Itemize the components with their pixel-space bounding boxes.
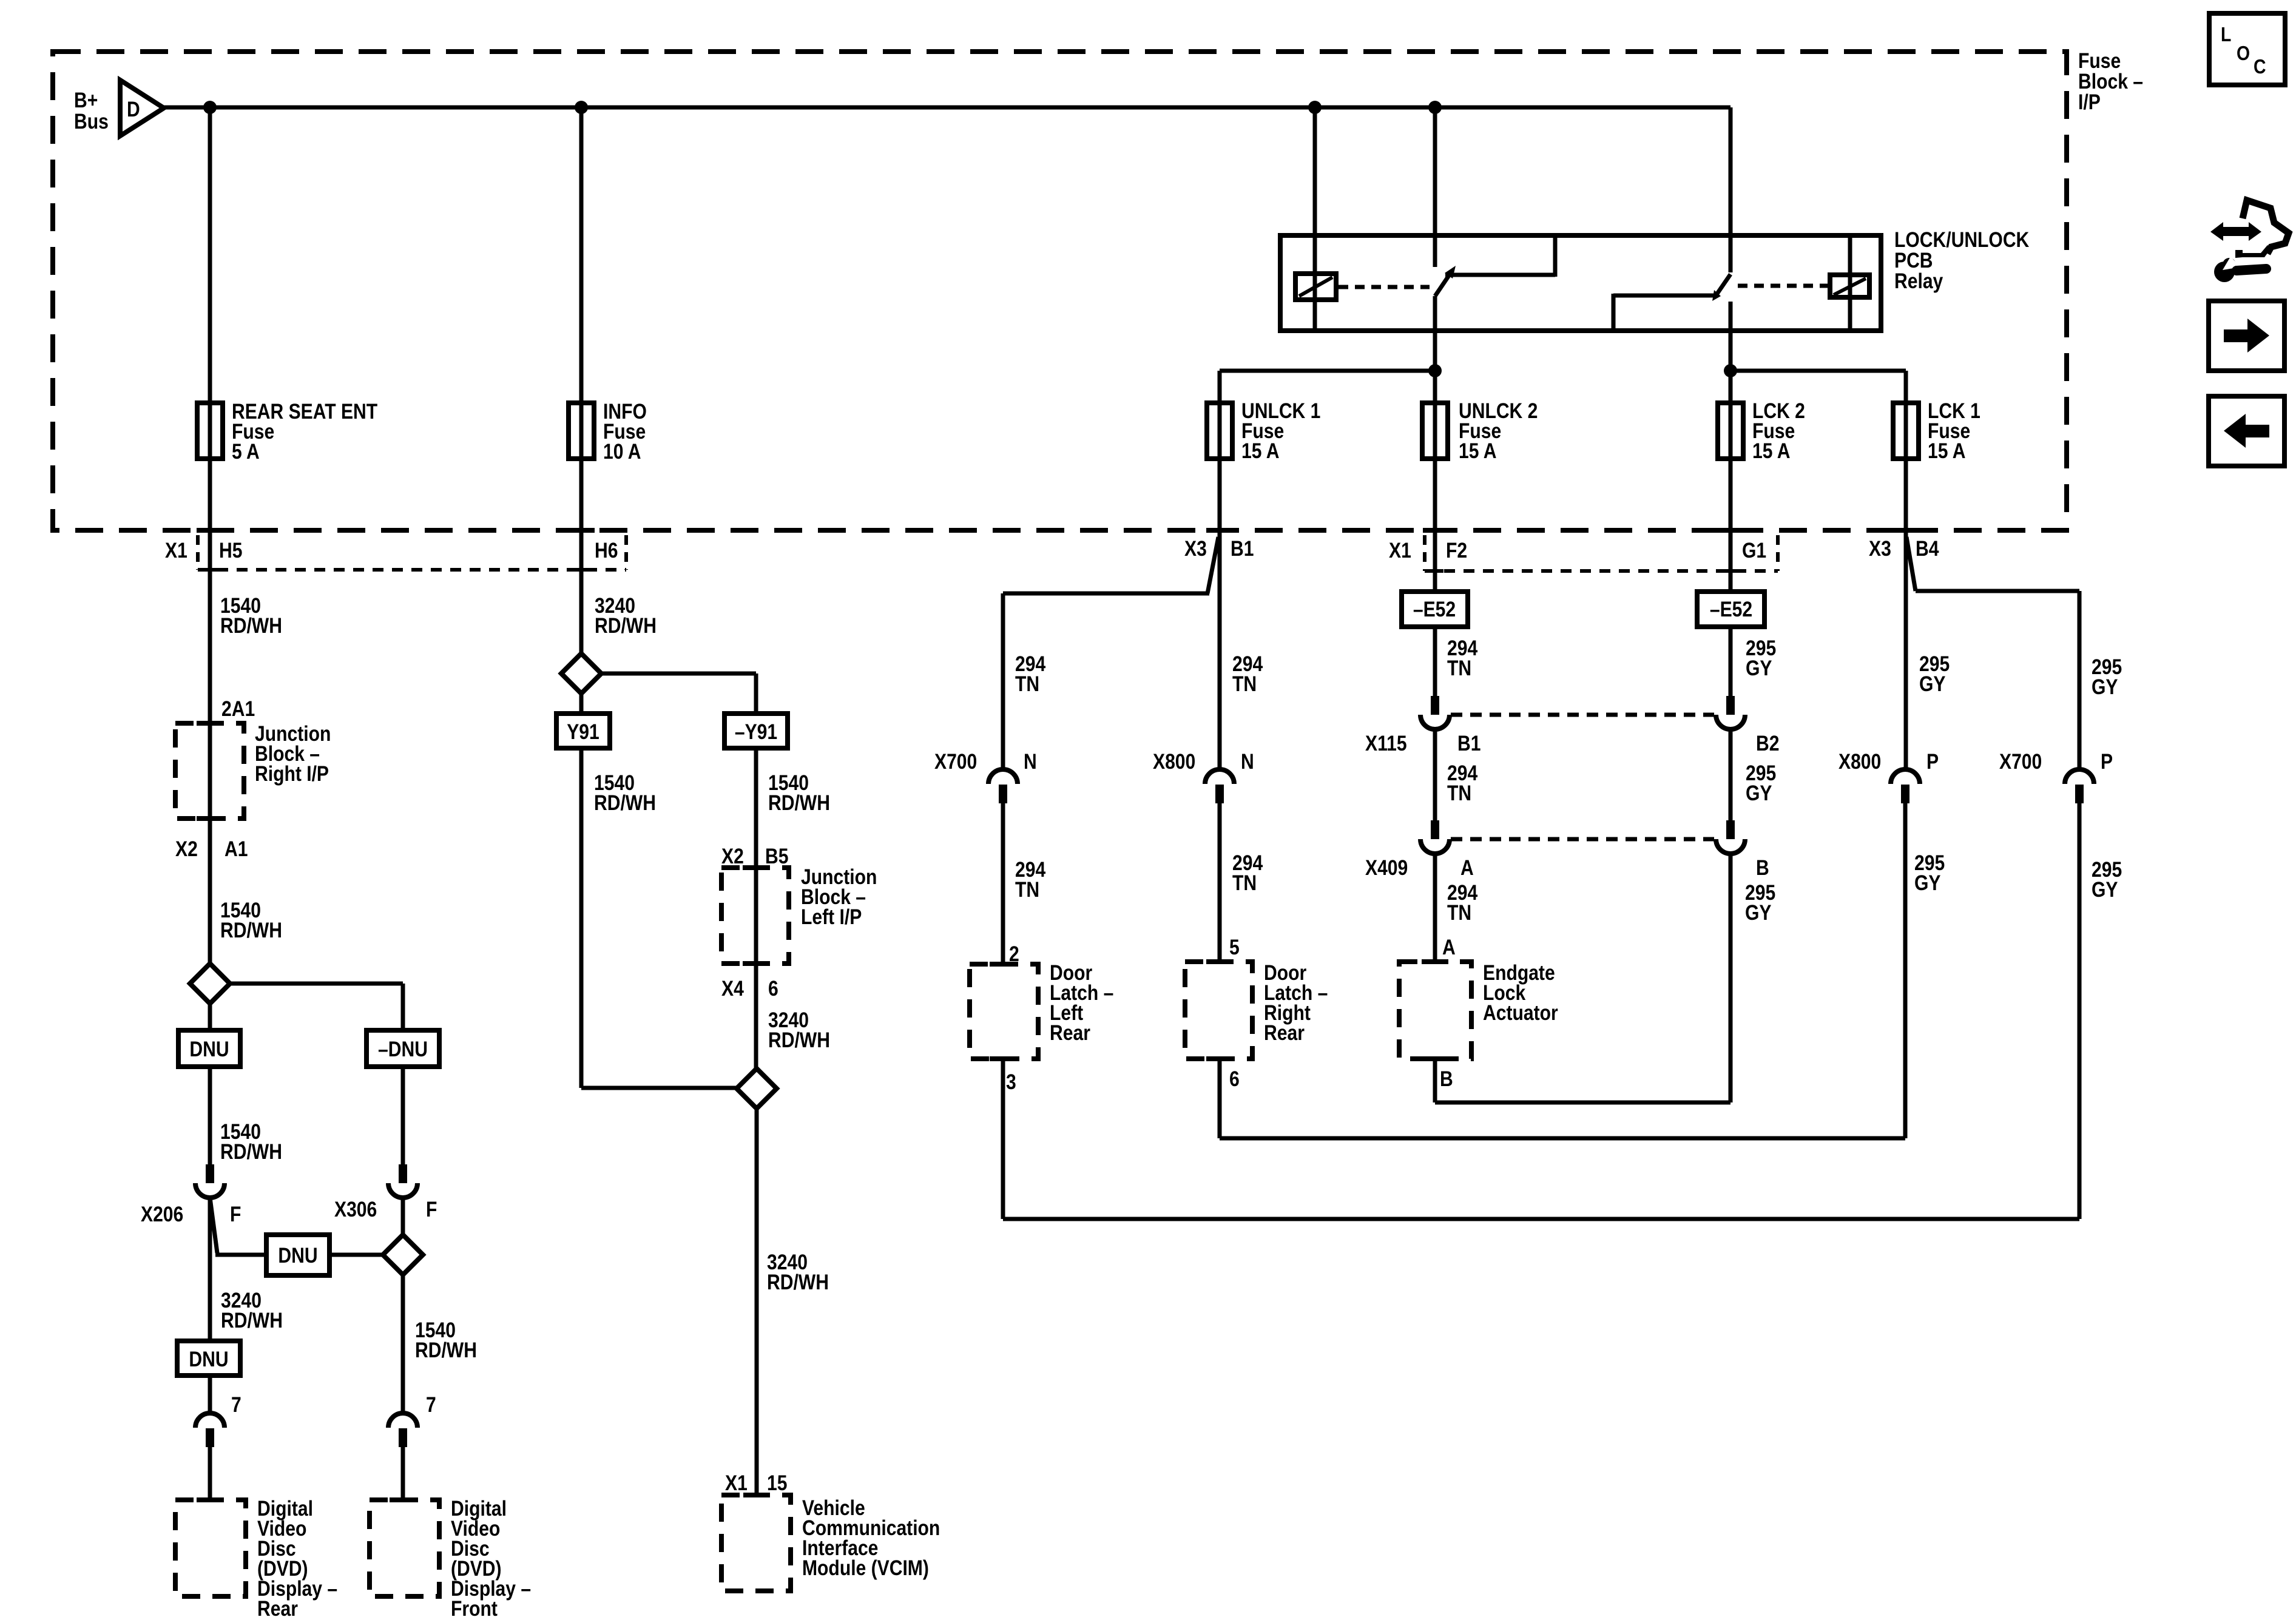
svg-text:–E52: –E52 <box>1710 597 1752 621</box>
wire UNLCK 1 branch diagonal <box>1207 537 1218 593</box>
connector 7 left <box>195 1413 225 1447</box>
svg-text:GY: GY <box>2092 675 2118 699</box>
svg-text:15 A: 15 A <box>1752 439 1790 463</box>
wire X700 N to door latch left rear <box>1001 803 1005 965</box>
label pin B4 <box>1916 536 1939 561</box>
wire lower DNU to connector 7 left <box>208 1376 212 1413</box>
svg-text:B1: B1 <box>1457 731 1481 755</box>
label wire 295 GY (p) <box>1914 851 1945 895</box>
svg-text:RD/WH: RD/WH <box>220 1139 282 1164</box>
wire E52 to X115 B1 <box>1433 627 1437 698</box>
label pin N right <box>1241 749 1254 774</box>
wire door latch right rear pin 6 down <box>1218 1059 1222 1138</box>
label Vehicle Communication Interface Module <box>802 1496 940 1580</box>
label pin P left <box>1926 749 1939 774</box>
label wire 294 TN (k) <box>1015 652 1045 696</box>
wire lock fuses feed rail <box>1730 369 1906 373</box>
connector X800 P <box>1891 769 1920 803</box>
connector X409 B <box>1716 820 1745 854</box>
label wire 3240 RD/WH (d) <box>221 1288 283 1332</box>
wire rail to LCK 1 fuse <box>1904 371 1908 405</box>
wire branch horizontal to X700 P column <box>1916 589 2079 593</box>
wire relay switch 1 NC contact to box top <box>1445 238 1555 277</box>
label pin 7 left <box>231 1393 241 1417</box>
wire splice S2 branch to -Y91 <box>601 673 756 714</box>
relay coil 1 <box>1295 274 1336 300</box>
label Digital Video Disc Display Rear <box>257 1496 337 1617</box>
label pin P right <box>2101 749 2113 774</box>
wire bus to REAR SEAT ENT fuse <box>208 107 212 405</box>
label X409 <box>1365 856 1408 880</box>
svg-text:15: 15 <box>767 1471 787 1495</box>
label wire 294 TN (o) <box>1232 851 1263 895</box>
icon diagnostic connector outline <box>2234 200 2289 258</box>
component DNU box left <box>178 1030 240 1067</box>
svg-text:5 A: 5 A <box>232 439 260 464</box>
svg-text:X206: X206 <box>141 1202 183 1226</box>
wire door latch left rear pin 3 down <box>1001 1059 1005 1219</box>
svg-text:TN: TN <box>1447 900 1471 925</box>
label X4 connector <box>721 976 744 1001</box>
wire UNLCK 1 fuse down through border <box>1218 459 1222 771</box>
svg-text:B1: B1 <box>1231 536 1254 561</box>
label X800 right <box>1838 749 1881 774</box>
wire rail to LCK 2 fuse <box>1729 371 1733 405</box>
label wire 1540 RD/WH (g) <box>594 771 656 815</box>
label X3 connector left <box>1184 536 1207 561</box>
wire X409 A to endgate actuator <box>1433 854 1437 963</box>
label wire 294 TN (q) <box>1447 636 1477 680</box>
component Y91 box <box>556 714 610 748</box>
wire -DNU to X306 <box>401 1067 405 1164</box>
svg-text:X700: X700 <box>1999 749 2042 774</box>
fuse block I/P dashed border <box>53 52 2067 530</box>
connector X700 N <box>988 769 1018 803</box>
svg-text:Rear: Rear <box>1050 1021 1090 1045</box>
svg-text:10 A: 10 A <box>603 439 641 464</box>
svg-text:–DNU: –DNU <box>378 1037 428 1061</box>
svg-text:RD/WH: RD/WH <box>220 613 282 638</box>
junction block right I/P dashed box <box>175 723 244 819</box>
wire X700 N column upper <box>1001 593 1005 771</box>
component -Y91 box <box>724 714 788 748</box>
relay switch 2 arm <box>1712 274 1730 301</box>
svg-text:RD/WH: RD/WH <box>595 613 657 638</box>
svg-text:Front: Front <box>451 1596 498 1617</box>
icon arrow right box <box>2209 301 2284 371</box>
connector X115 B1 <box>1420 696 1450 729</box>
label pin B1 <box>1231 536 1254 561</box>
wire bus to relay switch 1 fixed contact <box>1433 107 1437 267</box>
label X1 connector right <box>1389 538 1411 562</box>
svg-text:GY: GY <box>1746 656 1772 680</box>
label pin 2 <box>1009 942 1019 966</box>
svg-text:Rear: Rear <box>257 1596 298 1617</box>
svg-text:GY: GY <box>1745 900 1772 925</box>
device door latch left rear dashed box <box>970 964 1038 1059</box>
icon LOC box <box>2209 13 2285 85</box>
label pin A endgate <box>1442 935 1456 959</box>
svg-text:TN: TN <box>1232 871 1257 895</box>
svg-text:X1: X1 <box>725 1471 748 1495</box>
label Junction Block Left I/P <box>801 865 877 929</box>
svg-text:P: P <box>2101 749 2113 774</box>
label wire 294 TN (n) <box>1232 652 1263 696</box>
node junction dot bus/INFO <box>575 101 588 114</box>
wire relay switch 2 NC contact to box bottom <box>1613 294 1717 329</box>
svg-text:X115: X115 <box>1365 731 1407 755</box>
connector X409 A <box>1420 820 1450 854</box>
svg-text:TN: TN <box>1015 672 1039 696</box>
svg-text:DNU: DNU <box>278 1243 317 1268</box>
label Digital Video Disc Display Front <box>451 1496 531 1617</box>
device door latch right rear dashed box <box>1185 962 1252 1059</box>
label X700 left <box>934 749 977 774</box>
wire Y91 down and over to splice S3 <box>581 748 738 1088</box>
wire X800 P column lower <box>1903 803 1908 1138</box>
wire splice S1 branch to -DNU <box>230 984 403 1030</box>
svg-text:7: 7 <box>426 1393 436 1417</box>
svg-text:2A1: 2A1 <box>221 697 255 721</box>
svg-text:TN: TN <box>1232 672 1257 696</box>
svg-text:B4: B4 <box>1916 536 1939 561</box>
connector X306 pin F <box>388 1164 417 1198</box>
svg-text:X4: X4 <box>721 976 744 1001</box>
relay coil 1 dashed actuation link <box>1339 285 1430 289</box>
label pin A1 <box>225 837 248 861</box>
svg-text:X3: X3 <box>1184 536 1207 561</box>
connector X206 pin F <box>195 1164 225 1198</box>
svg-text:RD/WH: RD/WH <box>594 791 656 815</box>
svg-text:Left I/P: Left I/P <box>801 905 862 929</box>
label INFO Fuse 10 A <box>603 399 647 464</box>
svg-text:O: O <box>2237 42 2250 65</box>
label pin F right <box>426 1197 437 1221</box>
relay coil 2 feed from box top <box>1848 238 1852 329</box>
wire junction block to splice <box>208 819 212 965</box>
svg-text:6: 6 <box>1229 1067 1240 1091</box>
svg-text:TN: TN <box>1447 656 1471 680</box>
label pin 2A1 <box>221 697 255 721</box>
svg-text:X1: X1 <box>1389 538 1411 562</box>
connector strip X1 F2/G1 bottom dashes <box>1425 569 1778 573</box>
label wire 295 GY (t) <box>1746 636 1776 680</box>
wire branch horizontal to X700 column <box>1003 592 1209 596</box>
svg-text:DNU: DNU <box>189 1037 229 1061</box>
wire splice S3 to VCIM <box>755 1109 759 1496</box>
svg-text:X306: X306 <box>334 1197 377 1221</box>
fuse REAR SEAT ENT 5A <box>197 401 223 461</box>
fuse LCK 2 15A <box>1718 401 1743 461</box>
label Fuse Block - I/P <box>2078 49 2143 114</box>
wire endgate pin B down <box>1433 1059 1437 1102</box>
wire connector 7 right to DVD front <box>401 1447 405 1501</box>
svg-text:N: N <box>1024 749 1037 774</box>
wire LCK 1 branch diagonal <box>1906 537 1916 591</box>
label X1 connector <box>165 538 187 562</box>
label X3 connector right <box>1869 536 1891 561</box>
label wire 1540 RD/WH (c) <box>220 1119 282 1164</box>
wire X800 N to door latch right rear <box>1218 803 1222 963</box>
svg-text:X409: X409 <box>1365 856 1408 880</box>
label pin A conn <box>1460 856 1474 880</box>
svg-text:B: B <box>1756 856 1769 880</box>
label pin 5 <box>1229 935 1240 959</box>
svg-text:GY: GY <box>2092 877 2118 902</box>
svg-text:N: N <box>1241 749 1254 774</box>
wire connector 7 left to DVD rear <box>208 1447 212 1501</box>
relay coil 2 <box>1830 275 1869 297</box>
wire UNLCK 2 fuse to E52 <box>1433 459 1437 593</box>
wire relay switch 1 output <box>1433 296 1437 373</box>
splice diamond S1 <box>190 964 230 1004</box>
svg-text:F: F <box>426 1197 437 1221</box>
svg-text:6: 6 <box>768 976 778 1001</box>
svg-text:Y91: Y91 <box>567 720 599 744</box>
connector 7 right <box>388 1413 417 1447</box>
component DNU jumper box <box>266 1235 329 1275</box>
svg-text:–Y91: –Y91 <box>735 720 777 744</box>
component E52 splice pack left <box>1402 592 1468 627</box>
wire rail to UNLCK 1 fuse <box>1218 371 1222 405</box>
device DVD display front dashed box <box>370 1500 439 1596</box>
svg-text:B: B <box>1440 1067 1453 1091</box>
connector X700 P <box>2065 769 2094 803</box>
svg-text:Rear: Rear <box>1264 1021 1305 1045</box>
splice diamond S3 <box>737 1068 777 1109</box>
svg-text:RD/WH: RD/WH <box>768 791 830 815</box>
wire rail to UNLCK 2 fuse <box>1433 371 1437 405</box>
label X306 <box>334 1197 377 1221</box>
svg-text:RD/WH: RD/WH <box>221 1308 283 1332</box>
label LCK 1 Fuse 15 A <box>1928 399 1980 463</box>
wire X115 B1 to X409 A <box>1433 729 1437 822</box>
component -DNU box <box>366 1030 439 1067</box>
label pin F2 <box>1446 538 1467 562</box>
svg-text:Relay: Relay <box>1894 269 1943 293</box>
B+ Bus triangle terminal D <box>120 80 164 136</box>
connector strip X1 F2 right tick <box>1776 535 1780 571</box>
svg-text:RD/WH: RD/WH <box>415 1338 477 1362</box>
icon diagnostic double arrow <box>2210 222 2261 241</box>
wire X409 B column lower <box>1729 854 1733 1102</box>
connector strip X1 H5/H6 bottom dashes <box>198 568 626 572</box>
label X1 connector VCIM <box>725 1471 748 1495</box>
svg-text:C: C <box>2254 55 2266 78</box>
label Endgate Lock Actuator <box>1483 960 1558 1025</box>
label wire 1540 RD/WH (a) <box>220 593 282 638</box>
wire junction block left to splice S3 <box>754 964 758 1070</box>
connector strip X1 left tick <box>196 535 200 570</box>
wire bus to relay coil 1 <box>1313 107 1317 331</box>
label wire 294 TN (l) <box>1015 857 1045 902</box>
label pin B2 conn <box>1756 731 1779 755</box>
svg-text:X2: X2 <box>175 837 198 861</box>
label wire 3240 RD/WH (i) <box>768 1008 830 1052</box>
label wire 3240 RD/WH (f) <box>595 593 657 638</box>
label REAR SEAT ENT Fuse 5 A <box>232 399 377 464</box>
component DNU box lower <box>177 1341 240 1376</box>
device VCIM dashed box <box>721 1495 791 1591</box>
connector strip X1 F2 left tick <box>1423 535 1427 571</box>
wire bus to INFO fuse <box>579 107 584 405</box>
connector X800 N <box>1205 769 1234 803</box>
wire DNU jumper to splice S4 <box>329 1253 383 1257</box>
label wire 294 TN (s) <box>1447 880 1477 925</box>
svg-text:X1: X1 <box>165 538 187 562</box>
wire B+ bus <box>163 106 1730 110</box>
device endgate lock actuator dashed box <box>1399 962 1471 1059</box>
wire -Y91 to junction block left I/P <box>754 748 758 868</box>
label pin H5 <box>219 538 242 562</box>
svg-text:7: 7 <box>231 1393 241 1417</box>
label pin B conn <box>1756 856 1769 880</box>
icon arrow left box <box>2209 396 2284 466</box>
wire splice S2 to Y91 <box>579 694 584 714</box>
label LOCK/UNLOCK PCB Relay <box>1894 228 2030 293</box>
fuse UNLCK 1 15A <box>1207 401 1232 461</box>
dashed link X115 B1-B2 <box>1451 713 1714 717</box>
svg-text:Module (VCIM): Module (VCIM) <box>802 1556 929 1580</box>
wire X206 to DNU jumper <box>210 1198 266 1255</box>
label pin B5 <box>765 844 788 868</box>
svg-text:I/P: I/P <box>2078 90 2101 114</box>
wire E52 to X115 B2 <box>1729 627 1733 698</box>
label LCK 2 Fuse 15 A <box>1752 399 1805 463</box>
svg-text:H5: H5 <box>219 538 242 562</box>
label X700 right <box>1999 749 2042 774</box>
wire LCK 1 fuse down through border <box>1904 459 1908 771</box>
splice diamond S4 <box>383 1235 423 1275</box>
wire relay switch 2 output <box>1729 302 1733 373</box>
svg-text:G1: G1 <box>1742 538 1766 562</box>
svg-text:B5: B5 <box>765 844 788 868</box>
label pin H6 <box>595 538 618 562</box>
relay switch 1 arm <box>1435 266 1456 296</box>
svg-text:H6: H6 <box>595 538 618 562</box>
svg-text:L: L <box>2221 23 2231 46</box>
node junction dot bus/relay coil <box>1308 101 1322 114</box>
wire bus corner to relay switch 2 fixed contact <box>1729 107 1733 272</box>
svg-text:RD/WH: RD/WH <box>767 1270 829 1294</box>
node junction dot bus/relay switch 1 <box>1428 101 1442 114</box>
splice diamond S2 <box>561 653 601 694</box>
label pin G1 <box>1742 538 1766 562</box>
label X115 <box>1365 731 1407 755</box>
wire endgate return to X409 B column <box>1435 1101 1730 1105</box>
label wire 295 GY (x) <box>2092 655 2122 699</box>
wire X700 P column upper <box>2078 591 2082 771</box>
icon diagnostic wrench <box>2214 257 2266 282</box>
label wire 294 TN (r) <box>1447 761 1477 805</box>
fuse UNLCK 2 15A <box>1422 401 1448 461</box>
svg-text:GY: GY <box>1914 871 1941 895</box>
svg-text:Actuator: Actuator <box>1483 1001 1558 1025</box>
wire bottom return to X700 P column <box>1003 1217 2079 1221</box>
svg-text:–E52: –E52 <box>1413 597 1456 621</box>
svg-text:RD/WH: RD/WH <box>768 1028 830 1052</box>
label X206 <box>141 1202 183 1226</box>
wire INFO fuse to splice S2 <box>579 459 584 655</box>
connector strip X1 right tick <box>624 535 628 570</box>
svg-text:3: 3 <box>1006 1070 1016 1094</box>
wire LCK 2 fuse to E52 <box>1729 459 1733 593</box>
svg-text:B2: B2 <box>1756 731 1779 755</box>
label Junction Block Right I/P <box>255 721 331 786</box>
label X2 connector middle <box>721 844 744 868</box>
svg-text:15 A: 15 A <box>1459 439 1496 463</box>
label UNLCK 1 Fuse 15 A <box>1241 399 1320 463</box>
svg-text:X2: X2 <box>721 844 744 868</box>
svg-text:TN: TN <box>1015 877 1039 902</box>
node junction dot bus/REAR SEAT ENT <box>203 101 217 114</box>
label wire 295 GY (v) <box>1745 880 1775 925</box>
wire X206 to lower DNU <box>208 1198 212 1341</box>
label wire 295 GY (w) <box>1919 652 1950 696</box>
label pin F left <box>230 1202 241 1226</box>
svg-text:F: F <box>230 1202 241 1226</box>
label pin 15 <box>767 1471 787 1495</box>
label wire 295 GY (m) <box>2092 857 2122 902</box>
svg-text:GY: GY <box>1919 672 1946 696</box>
label wire 3240 RD/WH (j) <box>767 1250 829 1294</box>
svg-text:Bus: Bus <box>74 109 109 133</box>
svg-text:A: A <box>1460 856 1474 880</box>
svg-text:A: A <box>1442 935 1456 959</box>
label pin 6 <box>768 976 778 1001</box>
svg-text:X800: X800 <box>1153 749 1195 774</box>
svg-text:15 A: 15 A <box>1241 439 1279 463</box>
svg-text:RD/WH: RD/WH <box>220 918 282 942</box>
wire X306 to splice S4 <box>401 1198 405 1236</box>
svg-text:GY: GY <box>1746 781 1772 805</box>
label pin 6 <box>1229 1067 1240 1091</box>
wire unlock fuses feed rail <box>1220 369 1435 373</box>
svg-text:B+: B+ <box>74 88 98 112</box>
node junction dot switch1/UNLCK rail <box>1428 364 1442 377</box>
svg-text:15 A: 15 A <box>1928 439 1965 463</box>
svg-text:A1: A1 <box>225 837 248 861</box>
label wire 1540 RD/WH (e) <box>415 1318 477 1362</box>
wire fuse to junction block right I/P <box>208 459 212 723</box>
wire X700 P column lower <box>2078 803 2082 1219</box>
svg-text:X3: X3 <box>1869 536 1891 561</box>
relay LOCK/UNLOCK PCB box <box>1280 235 1881 331</box>
svg-text:X800: X800 <box>1838 749 1881 774</box>
relay coil 2 dashed actuation link <box>1738 284 1828 288</box>
label wire 1540 RD/WH (b) <box>220 898 282 942</box>
label Door Latch Left Rear <box>1050 960 1113 1045</box>
label Door Latch Right Rear <box>1264 960 1328 1045</box>
label wire 295 GY (u) <box>1746 761 1776 805</box>
wire X115 B2 to X409 B <box>1729 729 1733 822</box>
svg-text:P: P <box>1926 749 1939 774</box>
component E52 splice pack right <box>1697 592 1764 627</box>
fuse LCK 1 15A <box>1893 401 1919 461</box>
svg-text:D: D <box>127 97 140 121</box>
label pin B1 conn <box>1457 731 1481 755</box>
label X2 connector <box>175 837 198 861</box>
wire return to X800 P column <box>1220 1136 1905 1141</box>
label B+ Bus <box>74 88 109 133</box>
label UNLCK 2 Fuse 15 A <box>1459 399 1538 463</box>
junction block left I/P dashed box <box>721 868 789 964</box>
connector X115 B2 <box>1716 696 1745 729</box>
fuse INFO 10A <box>569 401 594 461</box>
node junction dot switch2/LCK rail <box>1724 364 1737 377</box>
wire splice S1 to DNU <box>208 1004 212 1030</box>
label pin N left <box>1024 749 1037 774</box>
